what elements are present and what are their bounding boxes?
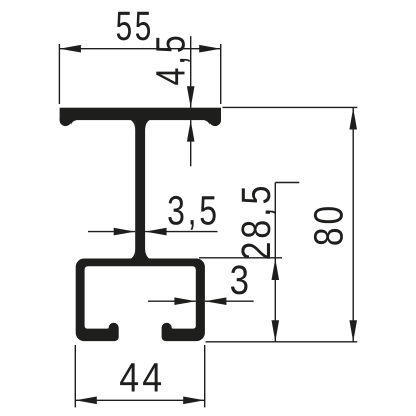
svg-text:80: 80 [306, 203, 352, 246]
svg-text:28,5: 28,5 [233, 183, 279, 261]
svg-text:44: 44 [119, 354, 165, 400]
svg-text:3: 3 [230, 257, 252, 303]
svg-text:4,5: 4,5 [147, 33, 193, 86]
svg-text:3,5: 3,5 [167, 188, 220, 234]
